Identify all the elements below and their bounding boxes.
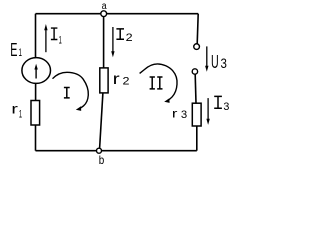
svg-text:r: r bbox=[113, 71, 121, 88]
svg-text:b: b bbox=[99, 153, 105, 167]
source E1 arrow bbox=[34, 64, 37, 79]
source E1 circle bbox=[22, 58, 51, 84]
resistor r3 bbox=[192, 103, 201, 126]
mesh loop arrow II bbox=[140, 64, 177, 103]
node b circle bbox=[97, 148, 102, 153]
wire right vertical lower bbox=[196, 126, 198, 151]
mesh loop I label bbox=[64, 88, 70, 98]
svg-text:3: 3 bbox=[223, 101, 229, 113]
svg-text:U: U bbox=[211, 52, 219, 72]
node a circle bbox=[101, 11, 107, 17]
svg-text:r: r bbox=[172, 107, 178, 121]
svg-text:E: E bbox=[10, 40, 17, 60]
svg-text:3: 3 bbox=[221, 55, 228, 71]
label I2 bbox=[116, 29, 132, 44]
label r1 bbox=[11, 100, 22, 120]
svg-text:2: 2 bbox=[126, 32, 133, 44]
label I3 bbox=[214, 96, 229, 113]
wire middle branch upper bbox=[103, 17, 105, 68]
mesh loop arrow I bbox=[53, 72, 89, 111]
wire left vertical mid bbox=[35, 83, 37, 100]
svg-text:2: 2 bbox=[123, 76, 130, 88]
voltage arrow U3 bbox=[205, 46, 208, 71]
label r2 bbox=[113, 71, 130, 88]
current arrow I1 bbox=[44, 24, 47, 52]
svg-text:3: 3 bbox=[181, 109, 187, 121]
label r3 bbox=[172, 107, 187, 122]
current arrow I3 bbox=[206, 98, 209, 125]
svg-text:r: r bbox=[11, 100, 18, 116]
label E1 bbox=[10, 40, 22, 60]
svg-text:1: 1 bbox=[19, 47, 23, 59]
terminal circle upper bbox=[194, 44, 200, 50]
wire left vertical lower bbox=[35, 125, 37, 151]
wire left vertical upper bbox=[35, 14, 37, 58]
label I1 bbox=[51, 28, 62, 46]
wire right vertical mid bbox=[194, 74, 197, 103]
svg-text:1: 1 bbox=[19, 109, 22, 121]
wire top horizontal bbox=[36, 13, 199, 15]
mesh loop II label bbox=[150, 77, 163, 89]
wire right vertical upper bbox=[197, 14, 198, 44]
svg-text:a: a bbox=[102, 1, 107, 12]
current arrow I2 bbox=[111, 27, 114, 57]
resistor r1 bbox=[31, 101, 40, 126]
resistor r2 bbox=[100, 68, 108, 93]
wire middle branch lower bbox=[100, 93, 103, 148]
label U3 bbox=[211, 52, 227, 72]
wire bottom horizontal bbox=[36, 150, 197, 152]
svg-text:1: 1 bbox=[59, 35, 62, 47]
terminal circle lower bbox=[192, 69, 197, 74]
